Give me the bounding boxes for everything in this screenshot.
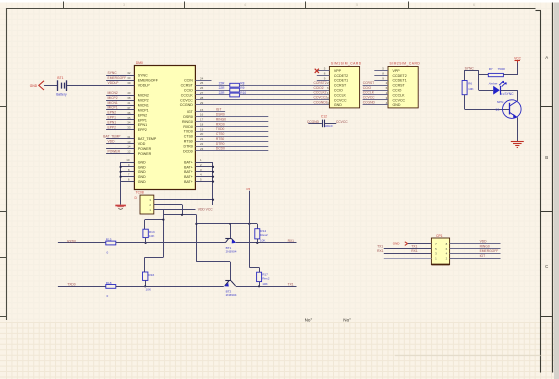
svg-text:CCDET2: CCDET2 — [393, 74, 407, 78]
svg-text:20: 20 — [200, 132, 204, 136]
svg-text:GND: GND — [393, 103, 401, 107]
svg-text:CCIO: CCIO — [393, 89, 402, 93]
svg-text:SYNC: SYNC — [138, 74, 148, 78]
svg-text:RING0: RING0 — [480, 244, 490, 248]
svg-text:GND: GND — [334, 103, 342, 107]
svg-text:R8: R8 — [240, 81, 244, 85]
svg-text:GND: GND — [138, 175, 146, 179]
svg-text:SIM2SIM_CARD: SIM2SIM_CARD — [390, 61, 421, 65]
svg-text:CCIO2: CCIO2 — [314, 86, 324, 90]
svg-text:19: 19 — [200, 127, 204, 131]
svg-text:R18: R18 — [106, 281, 112, 285]
svg-text:SIM1SIM_CARD: SIM1SIM_CARD — [331, 61, 362, 65]
svg-text:CCIO: CCIO — [334, 89, 343, 93]
svg-text:CCCLK: CCCLK — [181, 93, 194, 97]
svg-text:RING0: RING0 — [216, 117, 226, 121]
svg-text:C: C — [545, 264, 548, 269]
svg-text:DCD0: DCD0 — [216, 147, 225, 151]
svg-text:BAT_TEMP: BAT_TEMP — [103, 135, 121, 139]
svg-text:CCDET2: CCDET2 — [334, 74, 348, 78]
svg-text:750R: 750R — [498, 67, 506, 71]
svg-text:31: 31 — [127, 135, 131, 139]
svg-text:CCDET1: CCDET1 — [334, 79, 348, 83]
svg-text:CTS0: CTS0 — [184, 135, 193, 139]
svg-text:Q1: Q1 — [495, 107, 499, 111]
svg-text:C12: C12 — [321, 115, 327, 119]
svg-text:BAT_TEMP: BAT_TEMP — [138, 137, 157, 141]
svg-text:TX1: TX1 — [288, 283, 294, 287]
svg-text:MICP2: MICP2 — [138, 99, 149, 103]
svg-text:EMERGOFF: EMERGOFF — [480, 249, 499, 253]
svg-text:VDDLP: VDDLP — [108, 81, 120, 85]
svg-text:DSR0: DSR0 — [216, 113, 225, 117]
svg-text:CCRST: CCRST — [181, 84, 194, 88]
svg-text:TXD0: TXD0 — [67, 283, 76, 287]
svg-text:RING0: RING0 — [182, 120, 193, 124]
svg-text:EPN1: EPN1 — [108, 120, 117, 124]
svg-text:VPP: VPP — [334, 69, 342, 73]
svg-text:MICP2: MICP2 — [108, 96, 118, 100]
svg-text:TC08: TC08 — [136, 191, 144, 195]
svg-text:IGT: IGT — [187, 110, 194, 114]
svg-text:2N3904: 2N3904 — [226, 250, 237, 254]
svg-text:R6: R6 — [468, 82, 472, 86]
svg-text:GND: GND — [30, 84, 38, 88]
svg-text:22R: 22R — [219, 91, 226, 95]
svg-text:CCRST: CCRST — [334, 84, 347, 88]
svg-text:CCIO: CCIO — [363, 86, 372, 90]
svg-text:10K: 10K — [262, 282, 268, 286]
svg-text:C5: C5 — [246, 187, 250, 191]
svg-text:32: 32 — [127, 71, 131, 75]
svg-text:CCVCC: CCVCC — [363, 96, 375, 100]
svg-text:CCCLK2: CCCLK2 — [314, 91, 327, 95]
svg-text:BAT+: BAT+ — [184, 165, 193, 169]
svg-text:18: 18 — [200, 123, 204, 127]
svg-text:VDD: VDD — [108, 140, 116, 144]
svg-text:22R: 22R — [219, 81, 226, 85]
svg-text:10K: 10K — [260, 239, 266, 243]
svg-text:VDD: VDD — [138, 142, 146, 146]
svg-text:13: 13 — [127, 140, 131, 144]
svg-text:25: 25 — [200, 81, 204, 85]
svg-text:VCC: VCC — [514, 56, 522, 60]
svg-text:SYNC: SYNC — [108, 71, 118, 75]
svg-text:40: 40 — [127, 91, 131, 95]
svg-text:MICN1: MICN1 — [108, 101, 118, 105]
svg-text:10K: 10K — [149, 234, 155, 238]
svg-text:38: 38 — [127, 96, 131, 100]
svg-text:RX1: RX1 — [377, 249, 384, 253]
svg-text:EPP2: EPP2 — [138, 128, 147, 132]
svg-text:R7: R7 — [489, 67, 493, 71]
svg-text:Res2: Res2 — [262, 276, 270, 280]
svg-text:10: 10 — [126, 158, 130, 162]
svg-text:CCVCC: CCVCC — [334, 98, 347, 102]
svg-text:POWER: POWER — [108, 149, 121, 153]
svg-text:VDD: VDD — [480, 239, 488, 243]
svg-text:GND: GND — [393, 242, 401, 246]
svg-text:R15: R15 — [106, 237, 112, 241]
svg-text:MICN1: MICN1 — [138, 104, 149, 108]
svg-text:36: 36 — [127, 111, 131, 115]
svg-text:RX1: RX1 — [288, 239, 295, 243]
svg-text:CCCLK: CCCLK — [393, 93, 406, 97]
svg-text:34: 34 — [127, 121, 131, 125]
svg-text:CP1: CP1 — [436, 234, 443, 238]
svg-text:RXD0: RXD0 — [216, 122, 225, 126]
svg-text:A: A — [545, 55, 548, 60]
svg-text:RXD0: RXD0 — [67, 239, 76, 243]
svg-text:BAT+: BAT+ — [184, 160, 193, 164]
svg-text:EMERGOFF: EMERGOFF — [138, 79, 159, 83]
svg-text:MICN2: MICN2 — [108, 91, 118, 95]
svg-text:VDD VCC: VDD VCC — [198, 207, 213, 211]
svg-text:BT1: BT1 — [57, 76, 63, 80]
svg-text:39: 39 — [127, 81, 131, 85]
svg-text:GND: GND — [138, 170, 146, 174]
svg-text:CCCLK: CCCLK — [334, 93, 347, 97]
svg-text:BAT+: BAT+ — [184, 175, 193, 179]
svg-text:EPP1: EPP1 — [138, 118, 147, 122]
svg-text:CCIO: CCIO — [184, 89, 193, 93]
svg-text:CCVCC: CCVCC — [393, 98, 406, 102]
svg-text:22R: 22R — [219, 86, 226, 90]
svg-text:CCGND: CCGND — [180, 103, 193, 107]
svg-text:DSR0: DSR0 — [183, 115, 192, 119]
svg-text:Res2: Res2 — [260, 233, 268, 237]
svg-text:MICN2: MICN2 — [138, 94, 149, 98]
svg-text:22: 22 — [200, 142, 204, 146]
svg-text:2N3904: 2N3904 — [226, 293, 237, 297]
svg-text:R16: R16 — [149, 273, 155, 277]
svg-text:RTS0: RTS0 — [216, 137, 225, 141]
svg-text:26: 26 — [200, 86, 204, 90]
svg-text:GND: GND — [138, 165, 146, 169]
svg-text:R10: R10 — [240, 91, 246, 95]
svg-text:R9: R9 — [240, 86, 244, 90]
svg-text:No°: No° — [305, 318, 313, 323]
svg-text:TX1: TX1 — [411, 244, 417, 248]
svg-text:EPN2: EPN2 — [138, 113, 147, 117]
svg-text:CCIN: CCIN — [184, 79, 193, 83]
svg-text:CTS0: CTS0 — [216, 132, 225, 136]
svg-text:CCGND: CCGND — [363, 101, 376, 105]
svg-text:RXD0: RXD0 — [183, 125, 192, 129]
svg-text:12: 12 — [127, 150, 131, 154]
svg-text:MICP1: MICP1 — [108, 106, 118, 110]
svg-text:0: 0 — [107, 250, 109, 254]
svg-text:CCVCC2: CCVCC2 — [314, 96, 328, 100]
svg-text:NPN: NPN — [497, 100, 504, 104]
svg-text:IGT: IGT — [216, 108, 222, 112]
svg-text:BAT+: BAT+ — [184, 180, 193, 184]
svg-text:TXD0: TXD0 — [184, 130, 193, 134]
svg-text:0: 0 — [107, 294, 109, 298]
svg-text:MICP1: MICP1 — [138, 108, 149, 112]
svg-text:24: 24 — [200, 76, 204, 80]
svg-text:CCDET1: CCDET1 — [393, 79, 407, 83]
svg-text:DTR0: DTR0 — [216, 142, 225, 146]
svg-text:35: 35 — [127, 116, 131, 120]
svg-text:No°: No° — [343, 318, 351, 323]
svg-text:TX1: TX1 — [377, 244, 383, 248]
svg-text:37: 37 — [127, 106, 131, 110]
svg-text:EPP1: EPP1 — [108, 116, 117, 120]
svg-text:SYNC: SYNC — [465, 67, 475, 71]
svg-text:EMERGOFF: EMERGOFF — [108, 76, 127, 80]
svg-text:10K: 10K — [146, 287, 152, 291]
svg-text:Amber: Amber — [488, 82, 499, 86]
svg-text:SYNC: SYNC — [504, 92, 514, 96]
svg-text:DTR0: DTR0 — [184, 144, 193, 148]
svg-text:CCRST2: CCRST2 — [314, 81, 327, 85]
svg-text:DCD0: DCD0 — [183, 149, 193, 153]
svg-text:POWER: POWER — [138, 152, 152, 156]
svg-text:RTS0: RTS0 — [184, 140, 193, 144]
svg-text:100nF: 100nF — [324, 124, 333, 128]
svg-text:33: 33 — [127, 126, 131, 130]
svg-text:RX1: RX1 — [411, 249, 418, 253]
svg-text:DM0: DM0 — [136, 61, 143, 65]
svg-text:EPN2: EPN2 — [108, 111, 117, 115]
svg-text:GND: GND — [138, 160, 146, 164]
svg-text:CCVCC: CCVCC — [180, 98, 193, 102]
svg-text:41: 41 — [127, 101, 131, 105]
svg-text:B: B — [545, 155, 548, 160]
svg-text:EPN1: EPN1 — [138, 123, 147, 127]
svg-text:CCGND2: CCGND2 — [314, 101, 328, 105]
svg-text:EPP2: EPP2 — [108, 125, 117, 129]
svg-text:VDDLP: VDDLP — [138, 84, 150, 88]
svg-text:TXD0: TXD0 — [216, 127, 225, 131]
svg-text:VPP: VPP — [393, 69, 401, 73]
svg-text:POWER: POWER — [138, 147, 152, 151]
svg-text:CCRST: CCRST — [393, 84, 406, 88]
svg-text:30: 30 — [127, 76, 131, 80]
svg-text:Battery: Battery — [56, 93, 67, 97]
svg-text:GND: GND — [138, 180, 146, 184]
svg-text:10K: 10K — [468, 87, 474, 91]
svg-text:IGT: IGT — [480, 254, 486, 258]
svg-text:CCRST: CCRST — [363, 81, 374, 85]
svg-text:BAT+: BAT+ — [184, 170, 193, 174]
svg-text:CCVCC: CCVCC — [336, 120, 348, 124]
svg-text:21: 21 — [200, 137, 204, 141]
svg-text:14: 14 — [127, 145, 131, 149]
svg-text:CCCLK: CCCLK — [363, 91, 375, 95]
